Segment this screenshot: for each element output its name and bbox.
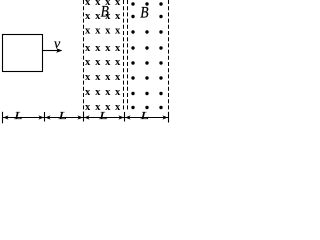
- svg-text:x: x: [115, 25, 121, 36]
- B-field into page: x symbols row 4: [85, 43, 121, 54]
- B-field out of page: dot symbols row 3: [131, 30, 162, 33]
- dimension tick 5: [168, 112, 170, 123]
- B-field out of page: dot symbols row 7: [131, 92, 162, 95]
- svg-text:x: x: [95, 43, 101, 54]
- svg-text:B: B: [140, 5, 148, 22]
- velocity arrow: [43, 48, 63, 53]
- dashed boundary: right edge of dot-region: [168, 0, 170, 111]
- dashed boundary: left edge of x-region: [83, 0, 85, 111]
- svg-text:x: x: [115, 43, 121, 54]
- svg-text:L: L: [98, 109, 107, 122]
- dimension baseline: [3, 117, 169, 119]
- B-field out of page: dot symbols row 8: [131, 106, 162, 109]
- dimension arrowheads span 4 (under dot-region): [125, 115, 168, 119]
- B-field out of page: dot symbols row 1: [131, 2, 162, 5]
- svg-text:x: x: [115, 0, 121, 8]
- svg-text:x: x: [85, 57, 91, 68]
- dimension arrowheads span 2: [45, 115, 83, 119]
- svg-text:x: x: [85, 87, 91, 98]
- svg-text:x: x: [85, 43, 91, 54]
- svg-text:x: x: [85, 102, 91, 113]
- B-field into page: x symbols row 5: [85, 57, 121, 68]
- B-field out of page: dot symbols row 6: [131, 76, 162, 79]
- svg-text:x: x: [105, 72, 111, 83]
- svg-text:x: x: [115, 102, 121, 113]
- svg-text:x: x: [85, 0, 91, 8]
- svg-text:x: x: [85, 72, 91, 83]
- svg-text:x: x: [115, 72, 121, 83]
- dimension tick 1: [2, 112, 4, 124]
- svg-text:x: x: [105, 57, 111, 68]
- svg-text:x: x: [95, 25, 101, 36]
- B-field out of page: dot symbols row 4: [131, 46, 162, 49]
- B-field out of page: dot symbols row 2: [131, 15, 162, 18]
- svg-text:L: L: [13, 109, 22, 122]
- svg-text:x: x: [105, 25, 111, 36]
- conducting square block: [3, 35, 43, 72]
- svg-text:x: x: [95, 87, 101, 98]
- B-field into page: x symbols row 6: [85, 72, 121, 83]
- B-field into page: x symbols row 8: [85, 102, 121, 113]
- B-field into page: x symbols row 1: [85, 0, 121, 8]
- dashed boundary: left edge of dot-region: [127, 0, 129, 111]
- B-field into page: x symbols row 7: [85, 87, 121, 98]
- dimension tick 2: [44, 112, 46, 122]
- svg-text:x: x: [95, 57, 101, 68]
- svg-text:B: B: [101, 3, 109, 20]
- B-field into page: x symbols row 2: [85, 11, 121, 22]
- dimension arrowheads span 3 (under x-region): [84, 115, 124, 119]
- svg-text:x: x: [105, 87, 111, 98]
- dimension tick 3: [83, 112, 85, 122]
- dimension tick 4: [124, 112, 126, 122]
- svg-text:x: x: [115, 11, 121, 22]
- svg-text:x: x: [105, 43, 111, 54]
- svg-text:x: x: [95, 72, 101, 83]
- svg-text:L: L: [58, 109, 67, 122]
- B-field out of page: dot symbols row 5: [131, 61, 162, 64]
- B-field into page: x symbols row 3: [85, 25, 121, 36]
- dimension arrowheads span 1 (left L): [3, 115, 44, 119]
- svg-text:x: x: [85, 11, 91, 22]
- dashed boundary: right edge of x-region: [123, 0, 125, 111]
- svg-text:x: x: [115, 57, 121, 68]
- svg-text:x: x: [115, 87, 121, 98]
- svg-text:L: L: [140, 109, 149, 122]
- svg-text:x: x: [85, 25, 91, 36]
- svg-text:v: v: [54, 37, 61, 52]
